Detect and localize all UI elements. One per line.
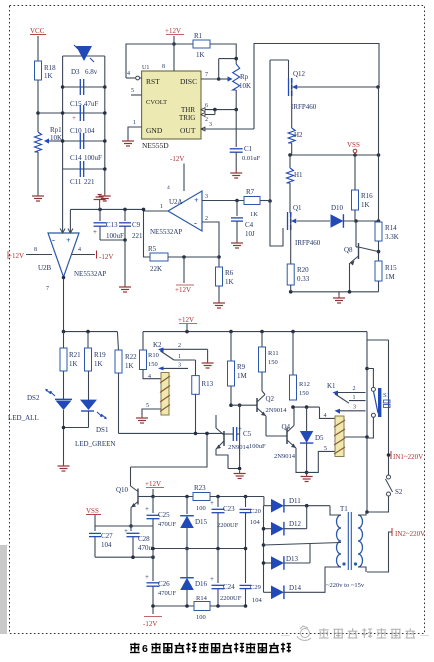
svg-text:3.3K: 3.3K	[385, 233, 399, 241]
svg-text:R18: R18	[44, 64, 56, 72]
svg-text:T1: T1	[340, 505, 348, 513]
svg-text:U2B: U2B	[38, 264, 52, 272]
svg-text:C4: C4	[245, 221, 254, 229]
svg-text:TRIG: TRIG	[179, 114, 195, 122]
svg-text:CVOLT: CVOLT	[146, 99, 167, 106]
svg-text:+12V: +12V	[165, 27, 181, 35]
svg-text:2N9014: 2N9014	[274, 453, 296, 460]
svg-text:6.8v: 6.8v	[85, 68, 98, 76]
svg-text:-12V: -12V	[170, 155, 184, 163]
svg-text:DS1: DS1	[96, 426, 109, 434]
svg-text:2200UF: 2200UF	[217, 522, 239, 529]
svg-text:6: 6	[205, 103, 208, 109]
svg-text:C1: C1	[244, 145, 253, 153]
svg-text:IRFP460: IRFP460	[295, 239, 321, 247]
svg-text:C29: C29	[250, 584, 261, 591]
svg-text:R14: R14	[385, 224, 397, 232]
svg-text:Rp1: Rp1	[50, 126, 62, 134]
svg-text:-12V: -12V	[99, 253, 113, 261]
svg-text:+: +	[124, 527, 128, 535]
svg-text:4: 4	[324, 413, 327, 419]
svg-text:Rp: Rp	[240, 73, 249, 81]
svg-text:1: 1	[178, 354, 181, 360]
svg-text:U2A: U2A	[169, 198, 183, 206]
svg-text:R12: R12	[299, 381, 310, 388]
svg-text:104: 104	[101, 541, 112, 549]
svg-text:22K: 22K	[150, 265, 162, 273]
svg-text:D5: D5	[315, 434, 324, 442]
svg-text:S2: S2	[395, 488, 403, 496]
svg-text:470UF: 470UF	[158, 590, 176, 597]
svg-text:D13: D13	[286, 555, 299, 563]
svg-text:+12V: +12V	[178, 316, 194, 324]
svg-text:4: 4	[127, 71, 130, 77]
svg-text:+: +	[210, 575, 214, 583]
svg-text:H1: H1	[294, 171, 303, 179]
svg-text:2: 2	[353, 386, 356, 392]
svg-text:3: 3	[353, 405, 356, 411]
svg-text:150: 150	[299, 390, 309, 397]
svg-text:470UF: 470UF	[158, 521, 176, 528]
svg-text:Q4: Q4	[282, 423, 291, 431]
svg-text:VSS: VSS	[347, 141, 360, 149]
svg-text:VSS: VSS	[86, 507, 99, 515]
svg-text:Q2: Q2	[266, 395, 275, 403]
svg-text:C23: C23	[223, 505, 235, 513]
svg-text:IN2~220V: IN2~220V	[395, 530, 425, 538]
svg-text:1K: 1K	[44, 72, 53, 80]
svg-text:100uF: 100uF	[84, 154, 102, 162]
svg-text:C27: C27	[101, 532, 113, 540]
svg-text:1K: 1K	[250, 211, 258, 218]
svg-text:4: 4	[78, 247, 81, 253]
svg-text:DS2: DS2	[27, 394, 40, 402]
svg-text:C9: C9	[132, 221, 141, 229]
svg-text:R15: R15	[385, 264, 397, 272]
svg-text:+: +	[210, 499, 214, 507]
svg-text:1K: 1K	[94, 360, 103, 368]
svg-text:2: 2	[178, 343, 181, 349]
svg-text:Q10: Q10	[116, 486, 129, 494]
svg-text:Q12: Q12	[293, 70, 306, 78]
svg-text:R19: R19	[94, 351, 106, 359]
svg-text:R5: R5	[148, 245, 157, 253]
svg-text:GND: GND	[146, 126, 163, 135]
svg-text:1M: 1M	[385, 273, 396, 281]
svg-text:Q1: Q1	[293, 204, 302, 212]
svg-text:-: -	[194, 218, 197, 228]
svg-text:R13: R13	[202, 380, 214, 388]
svg-text:R14: R14	[196, 595, 208, 602]
svg-text:-12V: -12V	[143, 620, 157, 628]
svg-text:RST: RST	[146, 77, 160, 86]
svg-text:OUT: OUT	[180, 126, 196, 135]
svg-text:LED_ALL: LED_ALL	[8, 414, 39, 422]
svg-text:3: 3	[205, 194, 208, 200]
svg-text:100: 100	[196, 614, 206, 621]
svg-text:-: -	[52, 235, 55, 245]
svg-text:150: 150	[148, 361, 158, 368]
svg-text:—: —	[419, 630, 430, 640]
svg-text:C24: C24	[223, 583, 235, 591]
svg-text:0.01uF: 0.01uF	[242, 155, 261, 162]
svg-text:R9: R9	[237, 363, 246, 371]
svg-text:D12: D12	[289, 520, 302, 528]
svg-text:S1: S1	[383, 392, 390, 399]
svg-text:D14: D14	[289, 584, 302, 592]
svg-text:104: 104	[252, 597, 263, 604]
svg-text:THR: THR	[181, 106, 195, 114]
svg-text:100uF: 100uF	[249, 443, 266, 450]
svg-text:150: 150	[268, 359, 278, 366]
svg-text:~220v to ~15v: ~220v to ~15v	[326, 582, 365, 589]
svg-text:1: 1	[133, 120, 136, 126]
svg-text:1K: 1K	[69, 360, 78, 368]
svg-text:10K: 10K	[239, 82, 251, 90]
svg-text:5: 5	[146, 403, 149, 409]
svg-text:C14: C14	[70, 154, 82, 162]
svg-text:Q8: Q8	[344, 246, 353, 254]
svg-text:DISC: DISC	[180, 77, 197, 86]
svg-text:R21: R21	[69, 351, 81, 359]
svg-text:1K: 1K	[125, 362, 134, 370]
svg-text:H2: H2	[294, 131, 303, 139]
svg-text:221: 221	[84, 178, 95, 186]
svg-text:5: 5	[324, 446, 327, 452]
svg-text:1K: 1K	[361, 201, 370, 209]
svg-text:U1: U1	[142, 65, 149, 71]
svg-text:1K: 1K	[225, 278, 234, 286]
svg-text:D16: D16	[195, 580, 208, 588]
svg-text:R23: R23	[194, 484, 206, 492]
svg-text:C20: C20	[250, 508, 261, 515]
svg-text:+: +	[72, 114, 76, 122]
svg-text:+: +	[66, 236, 71, 245]
svg-text:+12V: +12V	[8, 252, 24, 260]
svg-text:+: +	[194, 196, 199, 205]
svg-text:R1: R1	[194, 32, 203, 40]
svg-text:4: 4	[167, 185, 170, 191]
svg-text:10J: 10J	[245, 230, 255, 238]
svg-text:6: 6	[142, 643, 148, 655]
svg-text:2200UF: 2200UF	[220, 595, 242, 602]
svg-text:100uF: 100uF	[106, 232, 124, 240]
svg-text:4: 4	[148, 374, 151, 380]
svg-text:R16: R16	[361, 192, 373, 200]
svg-text:104: 104	[84, 127, 95, 135]
svg-text:470u: 470u	[138, 544, 153, 552]
svg-text:1: 1	[160, 204, 163, 210]
svg-text:K2: K2	[153, 341, 162, 349]
svg-text:D15: D15	[195, 518, 208, 526]
svg-text:1: 1	[353, 395, 356, 401]
svg-text:221: 221	[132, 232, 143, 240]
svg-text:2N9014: 2N9014	[266, 407, 288, 414]
svg-text:2: 2	[205, 216, 208, 222]
svg-text:D10: D10	[331, 204, 344, 212]
svg-text:5: 5	[131, 88, 134, 94]
svg-text:—: —	[280, 630, 291, 640]
svg-text:1K: 1K	[196, 51, 205, 59]
svg-text:IRFP460: IRFP460	[291, 103, 317, 111]
svg-text:K1: K1	[327, 382, 336, 390]
svg-text:+: +	[93, 228, 97, 236]
svg-text:3: 3	[178, 363, 181, 369]
svg-text:R20: R20	[297, 266, 309, 274]
svg-text:7: 7	[205, 72, 208, 78]
svg-text:NE5532AP: NE5532AP	[74, 270, 106, 278]
svg-text:+12V: +12V	[175, 286, 191, 294]
svg-text:R7: R7	[246, 188, 255, 196]
svg-text:C5: C5	[243, 430, 252, 438]
svg-text:0.33: 0.33	[297, 275, 310, 283]
svg-text:D3: D3	[71, 68, 80, 76]
svg-text:C11: C11	[70, 178, 82, 186]
svg-text:R22: R22	[125, 353, 137, 361]
svg-text:NE5532AP: NE5532AP	[150, 228, 182, 236]
svg-text:1M: 1M	[237, 372, 248, 380]
svg-text:R6: R6	[225, 269, 234, 277]
svg-text:C26: C26	[158, 580, 170, 588]
svg-text:2N9014: 2N9014	[228, 444, 250, 451]
svg-text:+12V: +12V	[145, 480, 161, 488]
svg-text:C28: C28	[138, 535, 150, 543]
svg-text:104: 104	[250, 519, 261, 526]
svg-text:8: 8	[162, 64, 165, 70]
svg-text:R11: R11	[268, 350, 279, 357]
svg-text:3: 3	[209, 122, 212, 128]
svg-text:IN1~220V: IN1~220V	[393, 453, 423, 461]
svg-text:LED_GREEN: LED_GREEN	[75, 440, 115, 448]
svg-text:7: 7	[46, 286, 49, 292]
svg-text:C25: C25	[158, 511, 170, 519]
svg-text:47uF: 47uF	[84, 100, 99, 108]
svg-text:VCC: VCC	[30, 27, 45, 35]
svg-text:D11: D11	[289, 497, 301, 505]
svg-text:NE555D: NE555D	[142, 141, 169, 150]
svg-text:R10: R10	[148, 352, 159, 359]
svg-text:100: 100	[196, 505, 206, 512]
svg-text:C13: C13	[106, 221, 118, 229]
svg-text:+: +	[145, 505, 149, 513]
svg-text:2: 2	[205, 117, 208, 123]
svg-text:8: 8	[34, 247, 37, 253]
svg-text:+: +	[238, 425, 242, 433]
svg-text:+: +	[145, 573, 149, 581]
